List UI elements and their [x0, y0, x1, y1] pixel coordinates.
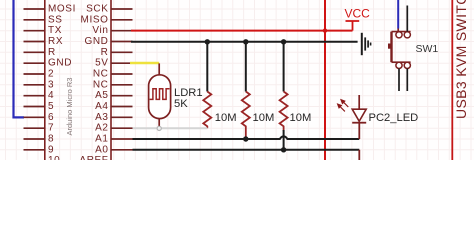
svg-text:5V: 5V — [95, 58, 108, 69]
LED PC2_LED — [352, 95, 366, 139]
label VCC — [345, 7, 371, 21]
svg-text:TX: TX — [48, 25, 62, 36]
part name Arduino Micro R3 — [65, 78, 74, 136]
wire black drop to R3 — [283, 42, 285, 92]
label PC2_LED — [369, 112, 419, 124]
node junction R3 on A0 bus — [281, 147, 286, 152]
wire gray A2 to LDR bottom and R1 — [133, 127, 208, 129]
wire black drop to R2 — [245, 42, 247, 92]
svg-text:7: 7 — [48, 123, 54, 134]
op-amp U1 Arduino Micro R3 box edges — [45, 0, 111, 160]
svg-text:5: 5 — [48, 101, 54, 112]
label 10M R2 — [253, 112, 275, 124]
svg-text:8: 8 — [48, 134, 54, 145]
svg-text:A3: A3 — [95, 112, 108, 123]
left pin labels — [48, 4, 76, 167]
svg-text:3: 3 — [48, 79, 54, 90]
svg-text:USB3 KVM SWITCH: USB3 KVM SWITCH — [453, 0, 469, 119]
resistor R2 10M — [242, 92, 250, 140]
wire black R3 bottom to A0 bus — [283, 130, 285, 150]
label 5K — [174, 98, 188, 110]
node junction R2 on A1 bus — [243, 136, 248, 141]
svg-text:Vin: Vin — [92, 25, 108, 36]
node LDR1 bottom pin circle — [157, 126, 161, 130]
svg-text:10M: 10M — [215, 112, 237, 124]
wire SW1 left pin link — [397, 29, 399, 32]
svg-text:Arduino Micro R3: Arduino Micro R3 — [65, 78, 74, 136]
node red junction — [323, 28, 327, 32]
label LDR1 — [174, 87, 203, 99]
svg-text:NC: NC — [93, 69, 109, 80]
svg-text:A5: A5 — [95, 90, 108, 101]
wire black A1 bus with hopover — [133, 136, 360, 139]
right pin labels — [79, 4, 108, 167]
svg-text:2: 2 — [48, 69, 54, 80]
left pin stubs — [24, 9, 45, 150]
svg-text:A0: A0 — [95, 144, 108, 155]
right pin stubs — [111, 9, 133, 150]
wire black A0 bus — [133, 149, 360, 151]
svg-text:10M: 10M — [253, 112, 275, 124]
label SW1 — [416, 43, 439, 55]
supply VCC symbol — [346, 21, 360, 31]
switch SW1 — [388, 32, 411, 69]
wire yellow 5V to LDR — [130, 62, 159, 64]
svg-text:10M: 10M — [290, 112, 312, 124]
svg-text:R: R — [101, 47, 109, 58]
svg-text:10: 10 — [48, 155, 60, 160]
svg-text:SS: SS — [48, 14, 63, 25]
label 10M R3 — [290, 112, 312, 124]
label 10M R1 — [215, 112, 237, 124]
svg-text:VCC: VCC — [345, 7, 371, 21]
svg-text:SCK: SCK — [86, 4, 108, 15]
wire blue net to pin 6 — [14, 0, 25, 117]
svg-text:MISO: MISO — [81, 14, 109, 25]
svg-text:A2: A2 — [95, 123, 108, 134]
svg-text:R: R — [48, 47, 56, 58]
svg-text:SW1: SW1 — [416, 43, 439, 55]
svg-text:5K: 5K — [174, 98, 188, 110]
svg-text:PC2_LED: PC2_LED — [369, 112, 419, 124]
svg-text:NC: NC — [93, 79, 109, 90]
wire maroon A0 continuation down — [358, 150, 360, 160]
LED arrows — [338, 100, 349, 112]
wire black drop to R1 — [206, 42, 208, 92]
svg-text:A1: A1 — [95, 134, 108, 145]
wire black GND bus — [131, 41, 358, 43]
svg-text:GND: GND — [84, 36, 108, 47]
svg-text:RX: RX — [48, 36, 63, 47]
ground earth symbol — [362, 33, 371, 55]
resistor R1 10M — [203, 92, 211, 129]
svg-text:6: 6 — [48, 112, 54, 123]
wire red Vin to VCC — [131, 30, 353, 32]
svg-text:9: 9 — [48, 144, 54, 155]
wire red vertical net — [324, 0, 326, 160]
wire red KVM box edge — [451, 0, 453, 160]
photoresistor LDR1 — [149, 63, 171, 126]
wire SW1 pin stubs — [399, 6, 407, 92]
svg-text:MOSI: MOSI — [48, 4, 76, 15]
resistor R3 10M — [280, 92, 288, 132]
svg-text:AREF: AREF — [79, 155, 108, 160]
svg-text:4: 4 — [48, 90, 54, 101]
svg-text:GND: GND — [48, 58, 72, 69]
wire blue to SW1 pin — [397, 0, 399, 29]
svg-text:A4: A4 — [95, 101, 108, 112]
node junction dots on GND bus — [205, 39, 287, 44]
label USB3 KVM SWITCH — [453, 0, 469, 119]
